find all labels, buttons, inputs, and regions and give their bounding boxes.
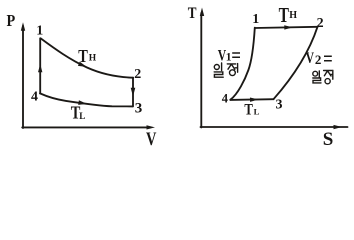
T axis (right diagram vertical axis) bbox=[200, 13, 202, 127]
arrowhead process 2-3 down bbox=[131, 88, 136, 97]
process line 4-1 (isochore, left diagram) bbox=[39, 38, 41, 93]
arrowhead S axis bbox=[334, 125, 343, 129]
hangul 일 left: ㅣ bbox=[221, 63, 223, 71]
hangul 정 right: ㅓ bbox=[330, 70, 332, 79]
svg-text:T: T bbox=[244, 101, 253, 118]
isotherm TH line 1-2 (right diagram) bbox=[255, 27, 318, 28]
arrowhead TH line right diagram bbox=[284, 25, 293, 30]
svg-text:4: 4 bbox=[222, 92, 229, 106]
svg-text:1: 1 bbox=[36, 23, 43, 38]
arrowhead V axis bbox=[147, 125, 156, 129]
svg-text:2: 2 bbox=[317, 16, 324, 31]
isotherm TH curve 1-2 (left diagram) bbox=[41, 38, 134, 77]
svg-text:4: 4 bbox=[31, 89, 38, 104]
svg-text:S: S bbox=[323, 129, 334, 149]
svg-text:V: V bbox=[306, 49, 314, 66]
hangul 정 left: ㅓ bbox=[235, 64, 237, 73]
svg-text:3: 3 bbox=[135, 101, 143, 117]
svg-text:2: 2 bbox=[134, 67, 141, 82]
svg-text:1: 1 bbox=[252, 12, 259, 27]
arrowhead process 4-1 up bbox=[38, 64, 42, 72]
svg-text:L: L bbox=[79, 111, 85, 121]
hangul 일 right: ㄹ bbox=[313, 78, 321, 83]
arrowhead T axis bbox=[200, 8, 204, 17]
svg-text:H: H bbox=[89, 54, 97, 64]
svg-text:V: V bbox=[146, 128, 156, 149]
S axis (right diagram horizontal axis) bbox=[201, 126, 348, 128]
P axis (left diagram vertical axis) bbox=[22, 26, 24, 128]
svg-text:T: T bbox=[188, 5, 197, 22]
isochore V2 curve 2-3 (right diagram) bbox=[274, 27, 318, 99]
hangul 일 right: ㅇ bbox=[313, 71, 318, 76]
hangul 일 left: ㅇ bbox=[214, 65, 219, 70]
hangul 정 right: ㅇ bbox=[325, 79, 330, 84]
arrowhead P axis bbox=[21, 22, 25, 31]
hangul 일 right: ㅣ bbox=[318, 71, 320, 77]
isochore V1 curve 1-4 (right diagram) bbox=[230, 28, 255, 100]
svg-text:T: T bbox=[279, 4, 290, 28]
process line 2-3 (isochore, left diagram) bbox=[132, 78, 134, 107]
svg-text:L: L bbox=[254, 106, 260, 116]
isotherm TL curve 4-3 (left diagram) bbox=[40, 93, 133, 106]
svg-text:T: T bbox=[78, 45, 88, 66]
isotherm TL line 4-3 (right diagram) bbox=[230, 98, 273, 101]
svg-text:1: 1 bbox=[226, 52, 232, 64]
svg-text:3: 3 bbox=[276, 98, 283, 113]
svg-text:P: P bbox=[7, 12, 16, 30]
svg-text:2: 2 bbox=[315, 52, 322, 67]
hangul 정 left: ㅈ bbox=[227, 64, 235, 70]
hangul 정 left: ㅇ bbox=[230, 70, 236, 76]
arrowhead TL line right diagram bbox=[250, 97, 259, 102]
V axis (left diagram horizontal axis) bbox=[22, 126, 150, 128]
arrowhead isotherm TH 1-2 bbox=[78, 62, 88, 69]
arrowhead isotherm TL 4-3 bbox=[78, 100, 87, 106]
hangul 정 right: ㅈ bbox=[324, 71, 332, 77]
hangul 일 left: ㄹ bbox=[214, 72, 223, 77]
svg-text:H: H bbox=[289, 10, 297, 21]
